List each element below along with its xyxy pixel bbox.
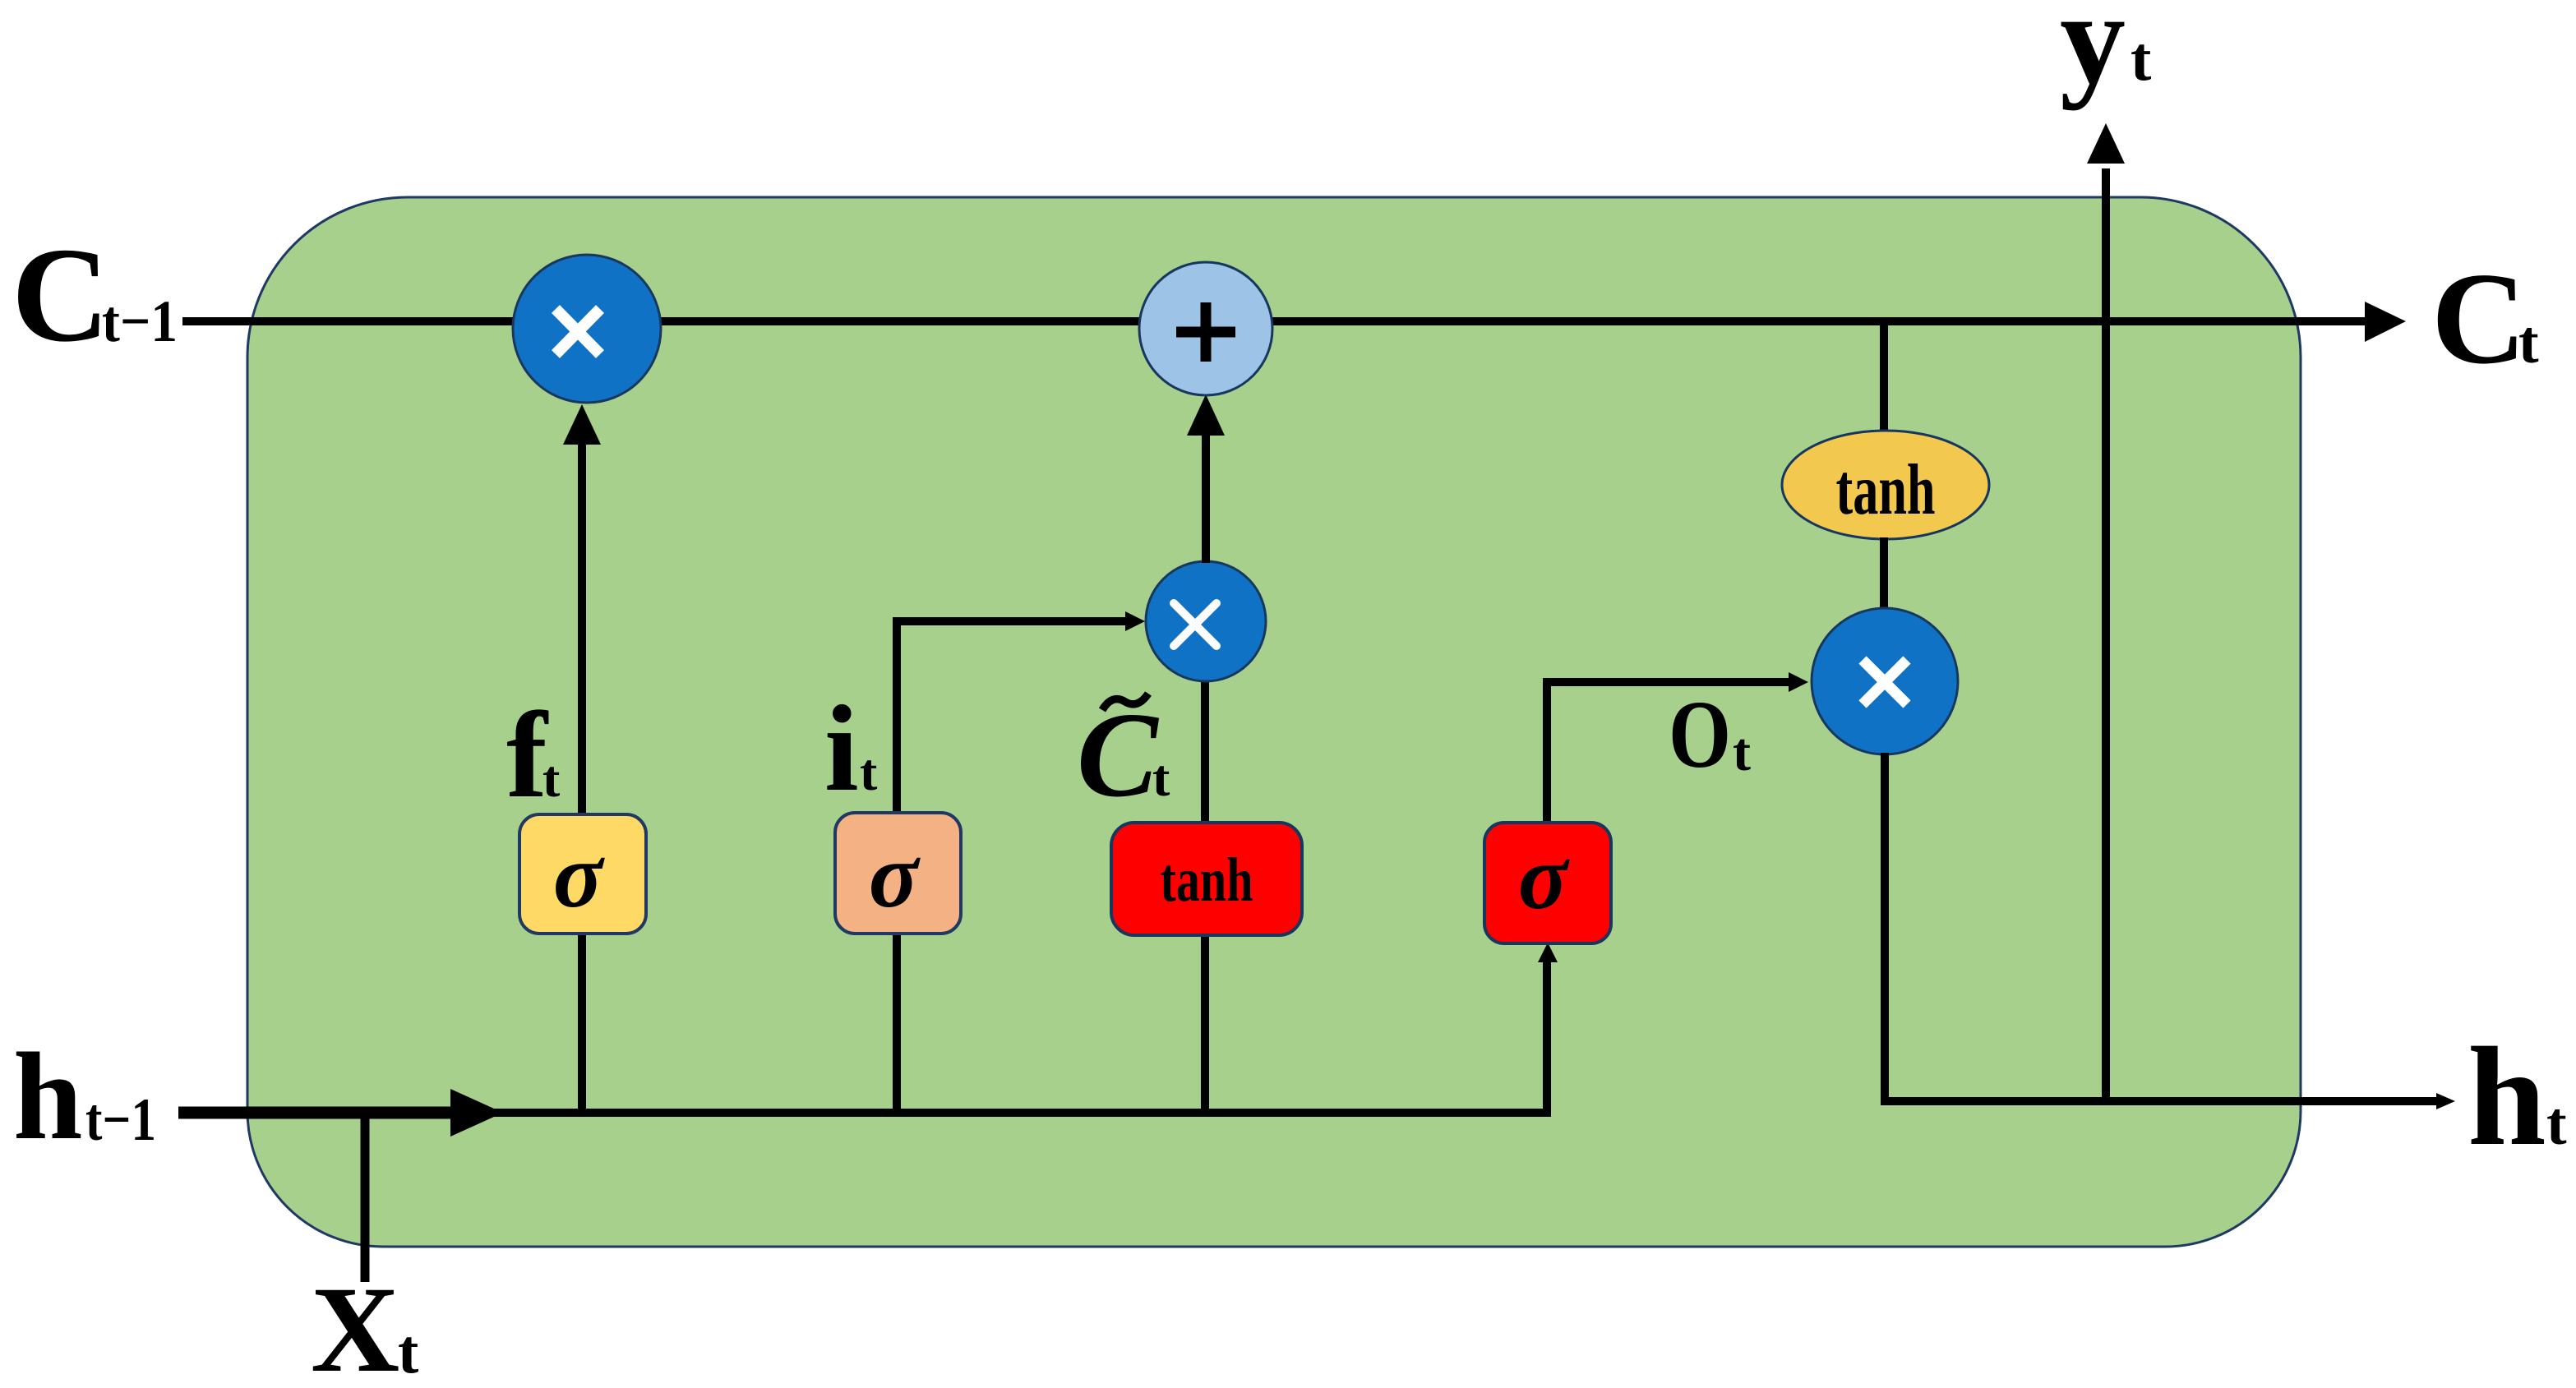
right multiply node bbox=[1812, 608, 1958, 754]
wire C-line down to tanh ellipse bbox=[1880, 319, 1888, 434]
arrowhead into h_t bbox=[2436, 1093, 2455, 1109]
node y_t label bbox=[2060, 0, 2151, 111]
svg-text:t: t bbox=[398, 1317, 418, 1386]
svg-text:C: C bbox=[1077, 688, 1160, 823]
svg-text:i: i bbox=[824, 680, 859, 817]
arrowhead into right multiply node bbox=[1789, 672, 1808, 692]
wire right multiply down to h-line bbox=[1881, 753, 1889, 1105]
svg-text:t−1: t−1 bbox=[102, 288, 178, 354]
wire forget gate to multiply node bbox=[578, 442, 586, 819]
arrowhead into C_t bbox=[2365, 302, 2406, 342]
svg-text:y: y bbox=[2060, 0, 2126, 111]
output gate sigma box bbox=[1484, 823, 1611, 943]
wire middle multiply up to add node bbox=[1202, 434, 1210, 563]
svg-text:C: C bbox=[2431, 245, 2527, 391]
svg-text:tanh: tanh bbox=[1161, 846, 1253, 915]
wire input gate up and right to middle multiply bbox=[897, 621, 1128, 817]
svg-text:t: t bbox=[2546, 1091, 2567, 1158]
node C_t label bbox=[2431, 245, 2539, 391]
node h_t-1 label bbox=[13, 1027, 156, 1165]
node X_t label bbox=[311, 1261, 418, 1388]
svg-text:σ: σ bbox=[1518, 827, 1570, 929]
arrowhead into add node bbox=[1187, 394, 1225, 436]
svg-text:t: t bbox=[2131, 25, 2151, 94]
wire output gate up and right to right multiply bbox=[1547, 682, 1792, 823]
node i_t label bbox=[824, 680, 878, 817]
add node bbox=[1139, 262, 1272, 395]
svg-text:t: t bbox=[2518, 309, 2539, 376]
arrowhead on h input line bbox=[450, 1089, 503, 1137]
wire h-line into output gate (up arrow) bbox=[1543, 957, 1551, 1114]
middle multiply node bbox=[1146, 561, 1266, 681]
node C-tilde_t label bbox=[1077, 688, 1170, 823]
arrowhead into left multiply node bbox=[563, 404, 601, 445]
tanh ellipse bbox=[1782, 431, 1989, 539]
forget gate sigma box bbox=[519, 814, 646, 934]
multiply node (forget) bbox=[513, 255, 661, 403]
arrowhead into middle multiply node bbox=[1125, 611, 1145, 631]
svg-text:O: O bbox=[1669, 680, 1731, 788]
wire h line to gates bbox=[493, 1109, 1551, 1117]
svg-text:h: h bbox=[13, 1027, 83, 1165]
wire f-gate vertical (h-line to forget gate) bbox=[578, 930, 586, 1114]
svg-text:C: C bbox=[12, 219, 109, 370]
wire X_t input vertical bbox=[361, 1113, 370, 1282]
svg-text:t: t bbox=[860, 743, 878, 801]
svg-text:t−1: t−1 bbox=[85, 1086, 156, 1154]
wire tanh ellipse to right multiply bbox=[1880, 537, 1888, 610]
wire h output line bbox=[1881, 1097, 2440, 1105]
svg-text:t: t bbox=[1733, 722, 1751, 782]
wire candidate below to h-line bbox=[1201, 932, 1209, 1114]
node h_t label bbox=[2468, 1019, 2567, 1175]
wire h input line (thick) bbox=[178, 1107, 460, 1119]
input gate sigma box bbox=[835, 813, 961, 934]
svg-text:X: X bbox=[311, 1261, 399, 1388]
wire i-gate vertical (h-line to input gate) bbox=[893, 930, 901, 1114]
arrowhead into output gate bottom bbox=[1538, 943, 1558, 962]
wire candidate gate to middle multiply bbox=[1201, 680, 1209, 826]
svg-text:σ: σ bbox=[553, 825, 605, 927]
wire y output vertical bbox=[2102, 168, 2110, 1101]
svg-text:t: t bbox=[1152, 749, 1170, 807]
svg-text:t: t bbox=[542, 749, 561, 808]
LSTM cell body bbox=[247, 197, 2301, 1247]
candidate tanh box bbox=[1111, 823, 1302, 935]
wire cell-state line C bbox=[182, 317, 2367, 325]
node O_t label bbox=[1669, 680, 1751, 788]
node f_t label bbox=[506, 687, 561, 823]
arrowhead into y_t bbox=[2087, 123, 2125, 164]
svg-text:h: h bbox=[2468, 1019, 2546, 1175]
svg-text:σ: σ bbox=[869, 825, 921, 927]
node C_t-1 label bbox=[12, 219, 178, 370]
svg-text:tanh: tanh bbox=[1836, 450, 1936, 530]
